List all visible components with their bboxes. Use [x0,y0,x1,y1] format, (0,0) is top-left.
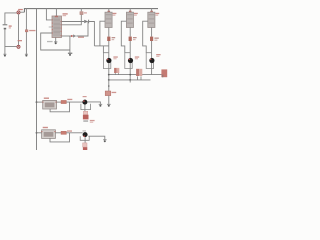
wire: bus stub to Q-C [151,9,153,13]
node junction B bus2 [129,79,131,81]
node junction A bus1 [108,74,110,76]
resistor R-row2 [61,131,66,134]
LED B [128,58,133,63]
wire: J1 right to bus [20,11,24,13]
pin mark Q-A top [108,11,111,13]
wire: battery top lead [5,13,17,24]
connector J2 (bottom circle) [17,45,20,48]
wire: Q-A left bypass [100,21,105,46]
capacitor CB on bus2 [136,69,142,80]
wire: Q-A main drop [108,28,110,37]
wire: U1 left stub pin y27 [49,26,52,28]
buzzer row2 body [83,143,87,147]
wire: bus stub to Q-A [108,9,110,13]
resistor R-A [107,37,110,41]
wire: K1 bottom loop [50,102,69,112]
label R-row1 [67,99,72,100]
wire: LED A frame [103,53,110,69]
wire: LED row2 right to ground [88,136,105,139]
wire: long feed to LED column A [94,45,109,47]
wire: LED row1 right to ground [87,102,100,104]
pin marks U1 left [52,19,53,33]
relay K2 [41,130,55,139]
node junction rail row2 [36,132,38,134]
resistor R-G on main A [105,91,111,96]
wire: rail to relay K2 [37,132,42,134]
label above LED row2 [83,130,87,131]
wire: LED C frame [146,53,153,69]
wire: cap tap from y36 wire [69,36,71,53]
label above LED row1 [83,96,87,97]
wire: U1 right pin y36 to diode D2 [62,35,72,37]
wire: Q-B left bypass [121,21,126,53]
capacitor CA on bus1 [114,68,119,75]
transistor IC Q-C [148,12,155,27]
wire: LED A to bus1 [108,63,110,80]
label F1 [84,12,87,13]
pin mark Q-C top [150,11,153,13]
label net row1 [90,120,95,121]
fuse F1 [80,9,83,15]
wire: K1 to R-row1 [57,101,62,103]
LED A [106,58,111,63]
connector J1 (top circle) [17,11,20,14]
wire: LED B frame [125,53,132,69]
wire: long vertical rail x36.5 [36,9,38,150]
wire: bus drop x46.4 to U1 pin [46,9,52,20]
wire: LED row2 down [84,137,86,143]
resistor row1 below [83,115,89,120]
label Q-C [155,13,159,14]
ground: row2 right [103,140,107,143]
ground: main A [107,104,111,107]
wire: LED row1 down [84,105,86,112]
wire: Q-C main drop [151,28,153,37]
label LED B [135,56,139,57]
label row1 below [83,120,88,122]
wire: LED row1 box outline [81,104,91,110]
node junction B bus1 [129,74,131,76]
wire: Q-B main drop [129,28,131,37]
capacitor CC at bus1 end [161,69,167,77]
node junction A bus2 [108,79,110,81]
LED row1 [82,100,87,105]
label LED A [113,56,117,57]
wire: LED B to bus2 [129,63,131,80]
wire: R-B to LED B [129,41,131,59]
capacitor C1 to ground [68,53,72,56]
IC U1 [52,16,62,38]
label R-row2 [67,130,72,131]
wire: LED row2 box outline [80,136,89,140]
node junction rail row1 [36,101,38,103]
node: open end dot x26.4 [25,54,28,56]
ground: row1 right [99,104,103,107]
wire: battery bottom lead [5,29,17,46]
wire: U1 right pin y21.5 to diode D1 [62,21,85,23]
wire: R-row1 to LED row1 [66,101,82,103]
label Q-B [134,13,138,14]
label J2 [18,40,22,41]
wire: Q-C left bypass [143,21,148,53]
resistor row2 below [83,147,87,150]
ground: U1 bottom [54,42,57,44]
wire: main A below bus2 [108,80,110,91]
label D2 [78,37,84,38]
wire: main B stub below bus2 [129,80,131,83]
node dot main A y86 [108,85,110,87]
diode D1 [84,20,88,24]
wire: U1 left pin y33 feedback to cap [41,33,70,50]
buzzer row1 body [83,111,87,114]
wire: bus2 horizontal [109,79,151,81]
label Q-A [113,13,117,14]
wire: J1 to J2 vertical [18,14,20,45]
resistor R-C [150,37,153,41]
wire: fuse to U1 pin y24.8 [62,15,82,25]
label U1 [63,13,68,14]
wire: stub below battery to node [4,47,6,54]
label R-G [112,92,117,93]
wire: R-A to LED A [108,41,110,59]
label R-C [154,38,158,39]
label K2 [43,127,48,128]
node: open end dot left [3,54,6,56]
pin mark Q-B top [129,11,132,13]
label LED C [156,54,160,55]
wire: K2 to R-row2 [55,132,61,134]
wire: U1 top stub to bus [55,9,57,16]
diode D2 [71,34,77,37]
transistor IC Q-A [105,12,112,27]
LED C [149,58,154,63]
resistor R-row1 [61,100,66,103]
wire: R-C to LED C [151,41,153,59]
pin mark U1 top [55,16,58,18]
wire: bus drop x26.4 with switch [25,9,27,54]
label R-A [112,37,116,38]
LED row2 [83,132,88,137]
switch S1 [25,30,28,32]
wire: U1 bottom stub [55,38,57,42]
label BT1 value [9,25,12,26]
battery BT1 [3,25,8,29]
wire: bus stub to Q-B [129,9,131,13]
wire: R-G to ground [108,96,110,104]
wire: rail to relay K1 [37,101,43,103]
wire: LED C to bus1 [151,63,153,75]
relay K1 [42,100,56,109]
label J1 [18,9,23,10]
label R-B [133,37,137,38]
wire: R-row2 to LED row2 [66,132,82,134]
label S1 [29,30,35,31]
wire: D1 out to corner down [89,22,95,46]
wire: top power bus [24,9,158,13]
wire: feed corner into LED A frame [102,46,104,53]
wire: D2 out up to D1 node [76,22,88,37]
resistor R-B [129,37,132,41]
label K1 [44,98,49,99]
pin marks U1 right [61,21,62,36]
wire: bus1 horizontal [109,74,163,76]
label gnd text under U1 [47,41,53,42]
wire: K2 bottom loop [50,133,70,142]
transistor IC Q-B [126,12,133,27]
